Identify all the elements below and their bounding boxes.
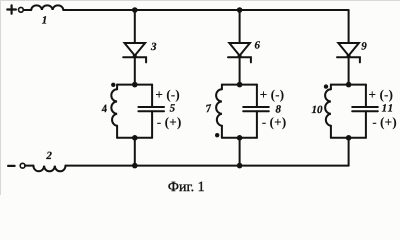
node tank1 bottom	[132, 135, 138, 141]
node bottom rail / branch 1	[132, 163, 138, 169]
node top rail / branch 1	[132, 7, 138, 13]
node top rail / branch 2	[237, 7, 243, 13]
svg-text:6: 6	[255, 39, 261, 51]
wire bottom rail	[66, 165, 349, 167]
node tank3 bottom	[346, 135, 352, 141]
svg-text:7: 7	[205, 103, 213, 116]
node tank2 bottom	[237, 135, 243, 141]
svg-text:11: 11	[382, 103, 395, 115]
svg-text:+ (-): + (-)	[368, 87, 393, 102]
diode 9	[337, 43, 360, 62]
svg-text:Фиг. 1: Фиг. 1	[168, 180, 205, 195]
wire branch 3 upper	[348, 10, 350, 43]
tank circuit 3 loop	[325, 85, 378, 138]
inductor 1	[23, 5, 63, 10]
svg-text:9: 9	[361, 41, 367, 53]
wire branch 3 lower	[348, 138, 350, 166]
diode 6	[228, 43, 251, 62]
wire branch 1 lower	[134, 138, 136, 166]
inductor 2	[25, 166, 66, 172]
svg-text:4: 4	[100, 103, 109, 116]
svg-text:- (+): - (+)	[262, 114, 287, 129]
svg-text:2: 2	[45, 150, 52, 162]
wire branch 1 upper	[134, 10, 136, 43]
svg-text:+ (-): + (-)	[260, 87, 285, 102]
tank circuit 2 loop	[216, 85, 269, 138]
wire branch 2 mid	[239, 57, 241, 84]
svg-text:1: 1	[42, 14, 48, 26]
polarity dot winding 4	[111, 83, 115, 87]
wire branch 2 lower	[239, 138, 241, 166]
wire branch 1 mid	[134, 57, 136, 84]
svg-text:5: 5	[170, 103, 176, 115]
polarity dot winding 10	[324, 84, 328, 88]
svg-text:- (+): - (+)	[157, 114, 182, 129]
node tank2 top	[237, 82, 243, 88]
svg-text:+ (-): + (-)	[155, 87, 180, 102]
wire top rail	[63, 9, 348, 11]
svg-text:10: 10	[312, 104, 324, 116]
terminal minus	[8, 163, 25, 168]
node tank3 top	[346, 82, 352, 88]
node bottom rail / branch 2	[237, 163, 243, 169]
node tank1 top	[132, 82, 138, 88]
svg-text:- (+): - (+)	[372, 114, 397, 129]
diode 3	[123, 43, 146, 62]
wire branch 2 upper	[239, 10, 241, 43]
svg-text:3: 3	[150, 41, 157, 53]
terminal plus	[7, 5, 23, 13]
tank circuit 1 loop	[111, 85, 164, 138]
wire branch 3 mid	[348, 57, 350, 84]
polarity dot winding 7	[215, 133, 219, 137]
